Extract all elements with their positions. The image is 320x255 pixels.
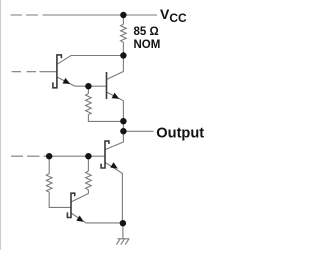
svg-text:Output: Output xyxy=(156,125,204,141)
svg-text:VCC: VCC xyxy=(160,6,187,25)
svg-text:85 Ω: 85 Ω xyxy=(134,26,159,38)
svg-text:NOM: NOM xyxy=(134,39,161,51)
